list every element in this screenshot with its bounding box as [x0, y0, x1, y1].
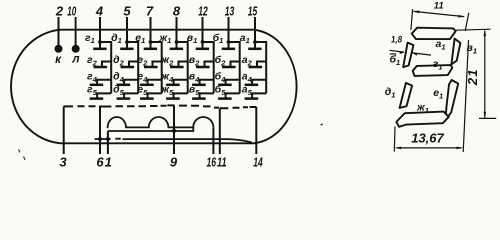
anode segment д2: [129, 62, 138, 68]
svg-text:а1: а1: [240, 32, 250, 45]
anode segment ж1: [176, 42, 178, 49]
svg-text:е4: е4: [137, 71, 148, 84]
svg-text:д2: д2: [113, 54, 125, 67]
cathode dot л: [72, 45, 80, 53]
svg-text:д1: д1: [111, 32, 122, 45]
dimension 21 (height): [456, 29, 496, 118]
anode segment б1: [228, 42, 230, 49]
svg-text:3: 3: [59, 154, 67, 169]
svg-text:5: 5: [123, 3, 131, 18]
svg-text:11: 11: [434, 1, 444, 11]
svg-text:7: 7: [146, 3, 154, 18]
digit segment в1 (top-right): [451, 39, 460, 65]
dimension 11 (top width): [411, 9, 469, 31]
anode segment г5: [97, 93, 111, 98]
svg-text:4: 4: [95, 3, 104, 18]
svg-text:12: 12: [198, 3, 208, 18]
svg-text:д1: д1: [385, 86, 396, 99]
column б bus wire: [229, 42, 240, 93]
anode segment а1: [254, 42, 256, 49]
anode segment д4: [124, 80, 138, 85]
filament return wire from pin 1: [108, 127, 193, 131]
anode segment ж4: [174, 80, 188, 85]
svg-text:а4: а4: [242, 71, 253, 84]
digit segment б1 (top-left): [403, 43, 413, 68]
svg-text:15: 15: [248, 3, 258, 18]
svg-text:в4: в4: [189, 71, 200, 84]
svg-text:ж1: ж1: [416, 102, 429, 115]
anode segment б2: [231, 62, 240, 68]
svg-text:ж4: ж4: [160, 71, 174, 84]
dimension 1,8 arrows: [390, 50, 432, 55]
digit segment е1 (bottom-right): [445, 80, 458, 120]
anode segment ж5: [174, 93, 188, 98]
svg-text:г4: г4: [87, 71, 98, 84]
anode segment е1: [150, 42, 152, 49]
anode segment д5: [124, 93, 138, 98]
svg-text:13,67: 13,67: [411, 130, 444, 145]
svg-text:е1: е1: [135, 32, 145, 45]
pin 10 lead: [75, 17, 77, 46]
pin 16 filament lead: [212, 127, 214, 154]
svg-text:г1: г1: [85, 32, 95, 45]
anode segment е4: [148, 80, 162, 85]
column д bus wire: [127, 42, 138, 93]
svg-text:е2: е2: [137, 54, 148, 67]
anode segment в1: [202, 42, 204, 49]
cathode dot к: [55, 45, 63, 53]
junction dot pin 6: [98, 137, 102, 141]
pin 6 grid lead: [99, 107, 101, 155]
pin 5 lead (segment column д): [126, 17, 128, 42]
svg-text:1,8: 1,8: [391, 35, 403, 46]
svg-text:б4: б4: [215, 71, 227, 84]
svg-text:6: 6: [96, 154, 104, 169]
junction dot column в: [201, 40, 205, 44]
svg-text:а2: а2: [242, 54, 253, 67]
svg-text:ж1: ж1: [158, 32, 171, 45]
junction dot column г: [98, 40, 102, 44]
anode segment е5: [148, 93, 162, 98]
pin 2 lead: [58, 17, 60, 46]
anode segment а2: [257, 62, 266, 68]
svg-text:г2: г2: [87, 54, 98, 67]
tube envelope outline: [11, 30, 297, 144]
anode segment е2: [153, 62, 162, 68]
svg-text:16: 16: [206, 154, 216, 169]
digit segment ж1 (bottom): [396, 112, 448, 127]
column в bus wire: [203, 42, 214, 93]
column е bus wire: [151, 42, 162, 93]
pin 1 filament lead: [107, 131, 109, 154]
pin 11 grid lead: [219, 108, 221, 154]
svg-text:к: к: [55, 54, 62, 66]
digit segment г1 (middle): [413, 65, 453, 76]
svg-text:л: л: [71, 54, 79, 66]
pin 9 grid / filament tap lead: [173, 105, 175, 154]
junction dot column ж: [175, 40, 179, 44]
anode segment ж2: [179, 62, 188, 68]
column ж bus wire: [177, 42, 188, 93]
pin 14 grid lead right: [255, 107, 257, 154]
filament heater wire (3 humps): [107, 117, 214, 127]
pin 3 grid lead left: [63, 106, 65, 154]
svg-text:в2: в2: [189, 54, 200, 67]
anode segment в2: [205, 62, 214, 68]
paper speck: [19, 150, 26, 160]
anode segment г2: [102, 62, 111, 68]
anode segment в5: [200, 93, 214, 98]
digit segment д1 (bottom-left): [400, 83, 413, 108]
dimension 13,67 (bottom width): [393, 127, 396, 152]
svg-text:г1: г1: [433, 58, 443, 71]
svg-text:10: 10: [67, 3, 76, 18]
pin 13 lead (segment column б): [228, 17, 230, 42]
svg-text:ж2: ж2: [160, 54, 174, 67]
junction dot column д: [125, 40, 129, 44]
svg-text:б1: б1: [213, 32, 224, 45]
junction dot column е: [149, 40, 153, 44]
column г bus wire: [100, 42, 111, 93]
pin 7 lead (segment column е): [150, 17, 152, 42]
junction dot pin 9 / filament: [172, 129, 176, 133]
pin 4 lead (segment column г): [99, 17, 101, 42]
anode segment г4: [97, 80, 111, 85]
svg-text:б1: б1: [390, 54, 401, 67]
paper speck: [320, 123, 323, 125]
svg-text:8: 8: [173, 3, 181, 18]
svg-text:б2: б2: [215, 54, 227, 67]
grid dashed top edge: [64, 105, 257, 108]
anode segment д1: [126, 42, 128, 49]
anode segment б4: [226, 80, 240, 85]
svg-text:14: 14: [253, 154, 263, 169]
anode segment а4: [252, 80, 266, 85]
svg-text:13: 13: [225, 3, 235, 18]
svg-text:1: 1: [105, 154, 112, 169]
extension line (right of digit): [463, 40, 468, 152]
svg-text:д4: д4: [113, 71, 125, 84]
junction dot column а: [253, 40, 257, 44]
anode segment г1: [99, 42, 101, 49]
pin 12 lead (segment column в): [202, 17, 204, 42]
digit segment а1 (top): [412, 28, 456, 39]
junction dot pin 1: [106, 137, 110, 141]
anode segment б5: [226, 93, 240, 98]
grid bottom dash marks: [95, 139, 253, 143]
svg-text:2: 2: [55, 3, 64, 18]
svg-text:в1: в1: [187, 32, 198, 45]
anode segment в4: [200, 80, 214, 85]
svg-text:е1: е1: [433, 87, 443, 100]
svg-text:9: 9: [170, 154, 178, 169]
pin 8 lead (segment column ж): [176, 17, 178, 42]
pin 15 lead (segment column а): [254, 17, 256, 42]
svg-text:21: 21: [465, 68, 480, 86]
junction dot column б: [227, 40, 231, 44]
anode segment а5: [252, 93, 266, 98]
column а bus wire: [255, 42, 266, 93]
svg-text:11: 11: [217, 154, 227, 169]
